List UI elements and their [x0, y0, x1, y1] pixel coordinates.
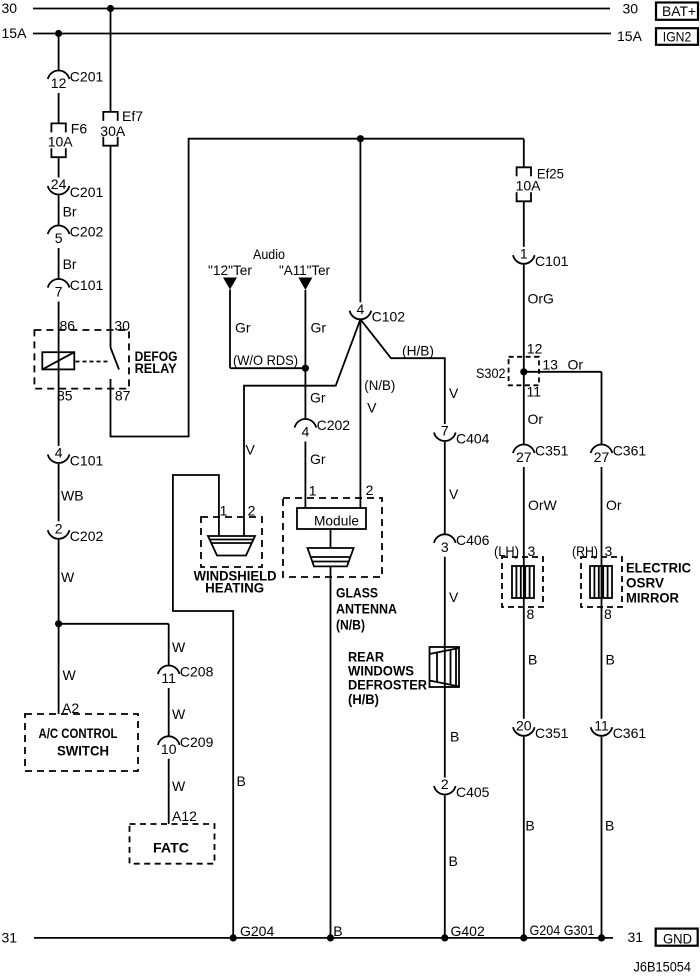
svg-text:Gr: Gr	[310, 390, 326, 406]
svg-text:Ef25: Ef25	[537, 166, 564, 182]
svg-text:30A: 30A	[100, 123, 126, 139]
svg-text:10: 10	[161, 741, 177, 757]
svg-text:B: B	[449, 853, 458, 869]
svg-text:C361: C361	[613, 442, 647, 458]
svg-text:3: 3	[441, 539, 449, 555]
svg-text:15A: 15A	[617, 28, 643, 44]
svg-text:24: 24	[51, 176, 67, 192]
svg-text:C406: C406	[456, 532, 490, 548]
svg-text:OrW: OrW	[528, 497, 558, 513]
svg-text:A/C CONTROL: A/C CONTROL	[39, 726, 118, 741]
svg-text:11: 11	[161, 670, 176, 686]
svg-text:C201: C201	[70, 184, 104, 200]
svg-text:86: 86	[60, 318, 76, 334]
svg-text:A12: A12	[172, 808, 197, 824]
svg-text:4: 4	[55, 445, 63, 461]
svg-text:C209: C209	[180, 734, 214, 750]
svg-text:B: B	[237, 773, 246, 789]
svg-text:G204 G301: G204 G301	[530, 922, 595, 938]
svg-text:FATC: FATC	[153, 841, 189, 856]
svg-text:B: B	[525, 818, 534, 834]
svg-text:Gr: Gr	[311, 320, 327, 336]
svg-text:GND: GND	[663, 930, 692, 946]
svg-text:12: 12	[527, 341, 543, 357]
svg-text:7: 7	[441, 423, 449, 439]
svg-text:V: V	[449, 589, 459, 605]
svg-text:G402: G402	[451, 923, 485, 939]
svg-text:C208: C208	[180, 663, 214, 679]
svg-text:HEATING: HEATING	[205, 581, 264, 596]
svg-text:Or: Or	[528, 411, 544, 427]
svg-text:Gr: Gr	[310, 451, 326, 467]
svg-text:30: 30	[623, 1, 639, 17]
svg-text:W: W	[61, 569, 75, 585]
svg-text:4: 4	[357, 301, 365, 317]
svg-text:W: W	[172, 778, 186, 794]
svg-text:B: B	[333, 923, 342, 939]
svg-text:2: 2	[441, 776, 449, 792]
svg-text:B: B	[605, 818, 614, 834]
svg-text:11: 11	[594, 717, 609, 733]
svg-text:C351: C351	[535, 725, 569, 741]
svg-text:G204: G204	[240, 923, 274, 939]
svg-text:C361: C361	[613, 725, 647, 741]
svg-text:DEFROSTER: DEFROSTER	[348, 678, 427, 693]
svg-text:7: 7	[55, 284, 63, 300]
svg-text:Br: Br	[63, 204, 77, 220]
svg-text:C101: C101	[535, 253, 569, 269]
svg-text:W: W	[172, 706, 186, 722]
svg-text:10A: 10A	[48, 133, 74, 149]
svg-text:Gr: Gr	[235, 320, 251, 336]
svg-text:WINDOWS: WINDOWS	[348, 664, 414, 679]
svg-text:13: 13	[542, 357, 558, 373]
svg-text:WB: WB	[61, 488, 84, 504]
svg-text:OSRV: OSRV	[626, 576, 664, 591]
svg-text:31: 31	[628, 929, 644, 945]
svg-text:OrG: OrG	[528, 291, 554, 307]
svg-text:1: 1	[520, 245, 528, 261]
svg-text:31: 31	[2, 930, 18, 946]
svg-text:W: W	[63, 667, 77, 683]
svg-text:1: 1	[309, 483, 317, 499]
svg-text:BAT+: BAT+	[662, 3, 696, 19]
svg-text:"12"Ter: "12"Ter	[208, 262, 252, 278]
svg-text:"A11"Ter: "A11"Ter	[279, 262, 330, 278]
svg-text:10A: 10A	[516, 178, 542, 194]
svg-text:C102: C102	[372, 309, 406, 325]
svg-text:2: 2	[55, 520, 63, 536]
svg-text:C202: C202	[317, 417, 351, 433]
svg-text:Module: Module	[314, 513, 359, 529]
svg-text:30: 30	[114, 318, 130, 334]
svg-text:20: 20	[516, 717, 532, 733]
svg-text:RELAY: RELAY	[135, 361, 177, 376]
svg-text:C202: C202	[70, 223, 104, 239]
svg-text:V: V	[449, 385, 459, 401]
svg-text:27: 27	[516, 449, 532, 465]
svg-text:B: B	[528, 652, 537, 668]
svg-text:(N/B): (N/B)	[364, 377, 395, 393]
svg-text:27: 27	[594, 449, 610, 465]
svg-text:V: V	[367, 400, 377, 416]
svg-text:MIRROR: MIRROR	[626, 591, 679, 606]
svg-text:REAR: REAR	[348, 650, 384, 665]
svg-text:Or: Or	[568, 357, 584, 373]
svg-text:W: W	[172, 639, 186, 655]
svg-text:Ef7: Ef7	[122, 108, 143, 124]
svg-text:ANTENNA: ANTENNA	[336, 602, 397, 617]
svg-text:C101: C101	[70, 277, 104, 293]
svg-text:S302: S302	[476, 365, 506, 381]
svg-text:15A: 15A	[2, 25, 28, 41]
svg-text:Br: Br	[63, 256, 77, 272]
svg-text:12: 12	[51, 75, 67, 91]
svg-text:8: 8	[527, 606, 535, 622]
svg-text:B: B	[450, 729, 459, 745]
svg-text:GLASS: GLASS	[336, 586, 378, 601]
svg-text:C202: C202	[70, 528, 104, 544]
svg-text:F6: F6	[71, 121, 88, 137]
svg-text:(H/B): (H/B)	[402, 343, 434, 359]
svg-text:2: 2	[366, 482, 374, 498]
svg-text:B: B	[606, 652, 615, 668]
svg-text:(H/B): (H/B)	[348, 692, 379, 707]
svg-text:Audio: Audio	[253, 246, 285, 262]
svg-text:ELECTRIC: ELECTRIC	[626, 561, 691, 576]
svg-text:11: 11	[527, 384, 542, 400]
svg-text:C351: C351	[535, 442, 569, 458]
svg-text:30: 30	[2, 0, 18, 16]
svg-text:C101: C101	[70, 452, 104, 468]
svg-text:(W/O RDS): (W/O RDS)	[233, 352, 298, 368]
svg-text:C201: C201	[70, 68, 104, 84]
svg-text:SWITCH: SWITCH	[57, 744, 109, 759]
svg-text:V: V	[246, 442, 256, 458]
svg-text:IGN2: IGN2	[663, 29, 692, 45]
svg-text:5: 5	[55, 230, 63, 246]
svg-text:(N/B): (N/B)	[336, 618, 365, 633]
svg-text:Or: Or	[606, 497, 622, 513]
svg-text:4: 4	[302, 424, 310, 440]
svg-text:8: 8	[604, 606, 612, 622]
svg-text:87: 87	[115, 388, 131, 404]
svg-text:C405: C405	[456, 784, 490, 800]
svg-text:V: V	[449, 486, 459, 502]
svg-text:J6B15054: J6B15054	[634, 960, 692, 975]
svg-text:C404: C404	[456, 430, 490, 446]
